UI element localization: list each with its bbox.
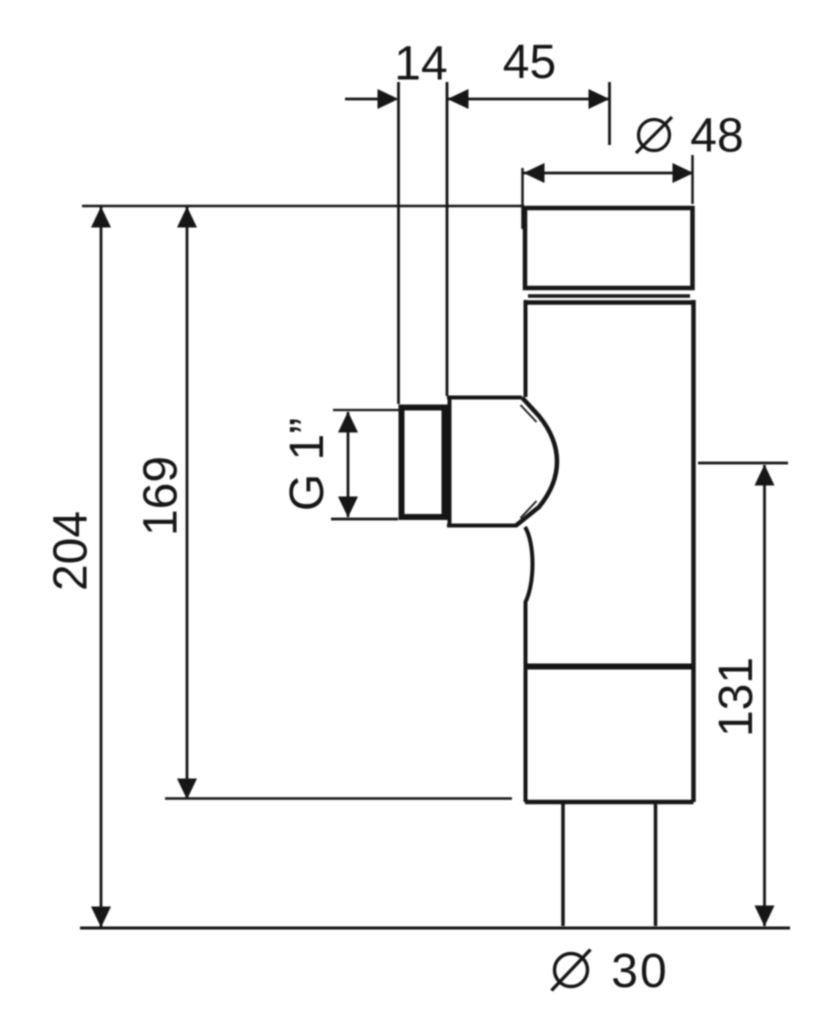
- svg-text:30: 30: [611, 945, 668, 998]
- svg-text:169: 169: [135, 456, 188, 536]
- svg-text:131: 131: [710, 657, 763, 737]
- svg-text:G 1”: G 1”: [281, 418, 334, 511]
- svg-text:204: 204: [45, 511, 98, 591]
- svg-text:45: 45: [503, 36, 556, 89]
- svg-text:48: 48: [690, 110, 743, 163]
- svg-text:14: 14: [394, 38, 447, 91]
